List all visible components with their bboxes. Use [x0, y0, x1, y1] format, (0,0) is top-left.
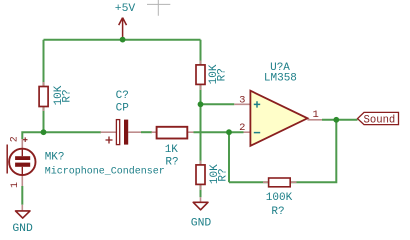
wire signal row left [44, 131, 102, 133]
wire inverting drop [228, 132, 230, 182]
pin cap left [101, 131, 117, 133]
svg-text:3: 3 [239, 95, 245, 107]
resistor R1 10K [39, 87, 48, 107]
pin U1 out [308, 119, 323, 121]
junction node in+ [198, 101, 204, 107]
svg-text:R?: R? [62, 89, 74, 102]
svg-text:1: 1 [312, 109, 318, 121]
ground GND mid [191, 202, 212, 229]
pin mic 2 [21, 139, 23, 149]
pin mic 1 [21, 175, 23, 186]
wire top rail [44, 39, 201, 41]
wire pin3 row [201, 103, 235, 105]
svg-text:R?: R? [271, 206, 284, 218]
wire divider column [200, 40, 202, 197]
svg-text:2: 2 [10, 136, 21, 142]
svg-text:Sound: Sound [364, 114, 396, 126]
pin stubs (pale red) [22, 61, 322, 211]
wire left column [43, 40, 45, 132]
svg-text:2: 2 [239, 122, 245, 134]
wire mic row [22, 132, 43, 139]
svg-text:R?: R? [216, 68, 228, 81]
pin cap right [128, 131, 141, 133]
pin 1K left [152, 131, 157, 133]
pin R1 bottom [43, 107, 45, 112]
svg-text:CP: CP [116, 103, 130, 115]
op-amp U1 LM358 [239, 62, 319, 146]
svg-text:1: 1 [10, 182, 21, 188]
pin gnd mid [200, 197, 202, 202]
capacitor C1 CP [106, 90, 130, 145]
resistor R3 10K [196, 165, 205, 185]
junction node +5V [120, 37, 126, 43]
power flag +5V [115, 3, 136, 39]
junction node out [333, 117, 339, 123]
pin R3 top [200, 161, 202, 165]
pin 1K right [187, 131, 193, 133]
global label Sound [358, 112, 399, 126]
pin R1 top [43, 82, 45, 87]
pin gnd left [21, 205, 23, 211]
wire mic to gnd [21, 186, 23, 205]
svg-text:+5V: +5V [115, 3, 136, 15]
cursor crosshair [147, 0, 170, 16]
pin R2 bottom [200, 84, 202, 90]
resistor R5 100K [269, 178, 291, 187]
pin R3 bottom [200, 184, 202, 190]
wire signal row right [194, 131, 244, 133]
pin U1 in+ [234, 103, 250, 105]
junction node in- [226, 129, 232, 135]
svg-text:C?: C? [116, 90, 129, 102]
wire signal row mid [141, 131, 152, 133]
svg-text:1K: 1K [165, 144, 179, 156]
svg-text:LM358: LM358 [264, 73, 297, 85]
svg-text:100K: 100K [266, 192, 293, 204]
svg-text:Microphone_Condenser: Microphone_Condenser [45, 166, 165, 178]
svg-text:GND: GND [12, 223, 33, 235]
svg-text:MK?: MK? [45, 152, 65, 164]
pin 100K right [290, 181, 296, 183]
microphone MK1 [7, 136, 165, 188]
wire feedback row [229, 120, 336, 182]
svg-text:GND: GND [191, 217, 212, 229]
pin U1 in- [244, 131, 251, 133]
junction node mic [41, 129, 47, 135]
resistor R2 10K [196, 65, 205, 85]
ground GND left [12, 211, 33, 235]
resistor R4 1K [157, 127, 188, 139]
svg-text:R?: R? [165, 157, 178, 169]
svg-text:R?: R? [218, 168, 230, 181]
pin 100K left [263, 181, 269, 183]
pin R2 top [200, 61, 202, 65]
wire output row [322, 119, 358, 121]
